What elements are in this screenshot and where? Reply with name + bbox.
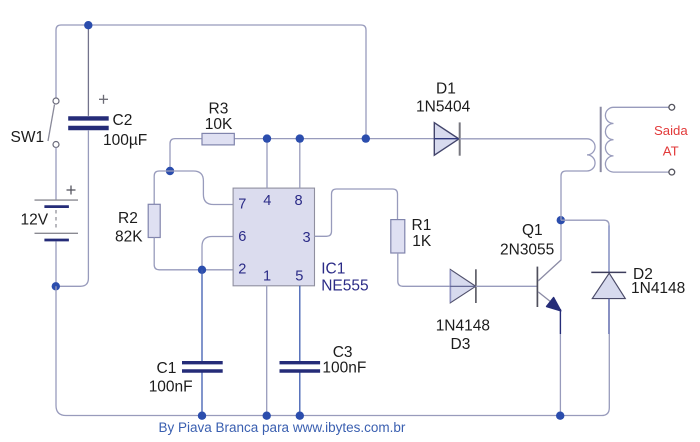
battery 12V xyxy=(35,200,79,240)
node R3/R2/pin7 junction xyxy=(166,167,174,175)
wire D3 to Q1 base xyxy=(476,285,538,287)
svg-text:AT: AT xyxy=(663,144,679,159)
svg-text:7: 7 xyxy=(238,196,246,212)
svg-text:6: 6 xyxy=(238,229,246,245)
transistor Q1 xyxy=(537,260,561,311)
wire R1 bottom to D3 xyxy=(398,253,450,286)
svg-text:Saida: Saida xyxy=(654,123,688,138)
svg-text:C2: C2 xyxy=(113,112,133,129)
svg-text:10K: 10K xyxy=(205,116,233,133)
svg-text:NE555: NE555 xyxy=(321,278,368,295)
wire R3 left bend down xyxy=(170,139,202,171)
svg-text:R2: R2 xyxy=(118,210,138,227)
node top rail right junction xyxy=(362,134,370,142)
op-amp IC1 NE555 box xyxy=(233,188,314,286)
svg-text:2N3055: 2N3055 xyxy=(500,241,554,258)
svg-text:D1: D1 xyxy=(436,81,456,98)
capacitor C1 xyxy=(182,363,223,371)
svg-text:1: 1 xyxy=(263,268,271,284)
svg-text:R1: R1 xyxy=(412,217,432,234)
battery plus sign xyxy=(67,186,76,195)
wire junction to R2 top xyxy=(154,171,170,204)
node pin8 junction xyxy=(296,134,304,142)
diode D2 xyxy=(591,272,626,334)
node pin2/pin6/C1 junction xyxy=(198,266,206,274)
wire bottom ground rail xyxy=(66,334,609,416)
node C1 ground junction xyxy=(198,412,206,420)
svg-text:5: 5 xyxy=(295,268,303,284)
svg-text:IC1: IC1 xyxy=(321,261,345,278)
svg-text:3: 3 xyxy=(303,230,311,246)
pin 1 stub xyxy=(266,286,268,416)
C2 plus sign xyxy=(99,95,108,104)
svg-text:1N5404: 1N5404 xyxy=(416,99,471,116)
svg-text:8: 8 xyxy=(294,193,302,209)
svg-text:1K: 1K xyxy=(412,233,432,250)
svg-text:100nF: 100nF xyxy=(322,360,366,377)
transformer core xyxy=(600,107,602,172)
node pin4 junction xyxy=(263,134,271,142)
switch SW1 xyxy=(48,98,59,148)
pin 4 stub xyxy=(266,139,268,189)
svg-text:1N4148: 1N4148 xyxy=(631,280,685,297)
capacitor C2 xyxy=(68,118,109,128)
wire C1 vertical xyxy=(201,270,203,416)
wire C2 top branch xyxy=(87,25,89,116)
resistor R1 xyxy=(391,220,405,253)
svg-text:2: 2 xyxy=(238,261,246,277)
wire D1 to transformer xyxy=(460,138,581,140)
transformer secondary winding xyxy=(605,107,669,172)
wire C2 bottom to left rail xyxy=(56,130,88,286)
svg-text:100µF: 100µF xyxy=(103,132,147,149)
capacitor C3 xyxy=(280,363,321,371)
node C3 ground junction xyxy=(296,412,304,420)
wire battery to ground node xyxy=(55,242,57,287)
terminal lower output xyxy=(669,169,675,175)
node battery/C2 junction xyxy=(52,282,60,290)
svg-text:100nF: 100nF xyxy=(149,379,193,396)
pin 5 / C3 vertical xyxy=(299,286,301,416)
diode D1 xyxy=(434,122,459,155)
node collector/primary/D2 junction xyxy=(557,216,565,224)
node Vcc top junction xyxy=(84,21,92,29)
svg-text:12V: 12V xyxy=(21,212,49,229)
svg-text:D3: D3 xyxy=(451,336,471,353)
diode D3 xyxy=(450,269,476,303)
svg-text:4: 4 xyxy=(263,193,271,209)
svg-text:C3: C3 xyxy=(333,344,353,361)
resistor R2 xyxy=(148,204,160,237)
wire emitter to ground rail xyxy=(559,334,561,416)
wire top-left vertical from switch to top rail xyxy=(56,25,61,98)
svg-text:1N4148: 1N4148 xyxy=(436,317,490,334)
wire R3 row to D1 xyxy=(234,138,434,140)
wire switch to battery xyxy=(55,148,57,200)
wire top rail xyxy=(61,25,366,139)
node emitter ground junction xyxy=(556,412,564,420)
svg-text:Q1: Q1 xyxy=(522,222,543,239)
transformer T1 primary winding xyxy=(561,139,595,220)
svg-text:SW1: SW1 xyxy=(11,129,45,146)
pin 8 stub xyxy=(299,139,301,189)
wire D2 top lead xyxy=(608,225,610,272)
wire junction to pin 7 xyxy=(170,171,233,205)
svg-text:82K: 82K xyxy=(115,229,143,246)
svg-text:By Piava Branca para www.ibyte: By Piava Branca para www.ibytes.com.br xyxy=(159,420,406,435)
wire emitter lead navy xyxy=(559,309,561,334)
svg-text:C1: C1 xyxy=(157,360,177,377)
wire node to D2 top xyxy=(561,220,609,225)
wire pin 3 to R1 xyxy=(315,189,398,236)
node pin1 ground junction xyxy=(263,412,271,420)
wire pin 6 down to node xyxy=(202,237,233,270)
wire collector up to node xyxy=(560,220,562,260)
svg-text:R3: R3 xyxy=(209,100,229,117)
wire left rail to bottom rail xyxy=(56,286,66,415)
terminal upper output xyxy=(669,104,675,110)
resistor R3 xyxy=(202,133,234,145)
wire R2 bottom to pin 2 xyxy=(154,238,233,270)
